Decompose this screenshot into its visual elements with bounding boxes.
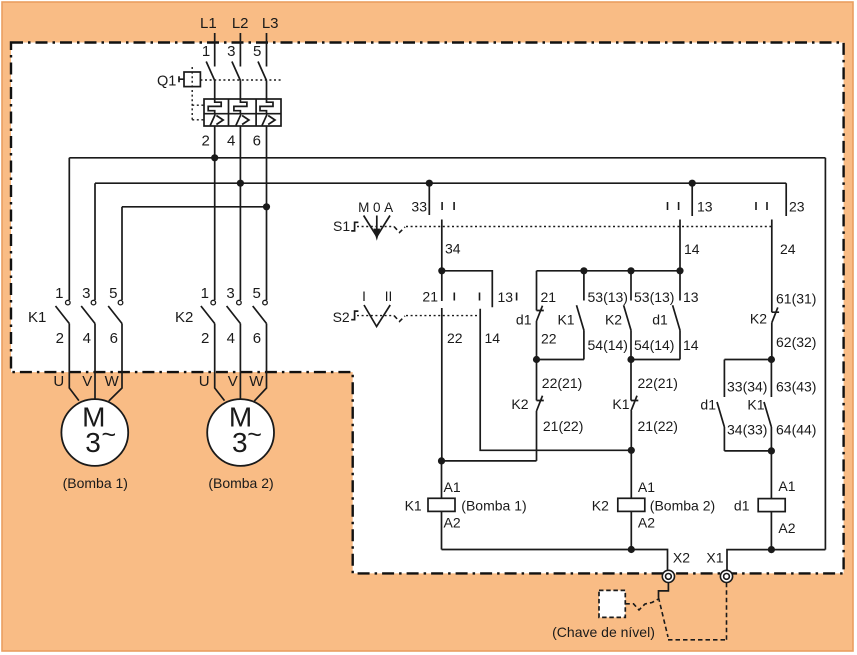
svg-text:34: 34: [445, 241, 461, 257]
svg-text:1: 1: [201, 285, 209, 302]
svg-text:K1: K1: [28, 309, 46, 326]
svg-text:22(21): 22(21): [638, 375, 678, 391]
svg-text:3: 3: [227, 43, 235, 60]
svg-text:A1: A1: [778, 478, 795, 494]
svg-text:I: I: [362, 289, 366, 304]
svg-text:A2: A2: [778, 520, 795, 536]
svg-text:14: 14: [684, 241, 700, 257]
svg-text:14: 14: [485, 330, 501, 346]
svg-text:(Bomba 1): (Bomba 1): [63, 475, 128, 491]
svg-text:M: M: [358, 200, 369, 215]
svg-text:4: 4: [83, 330, 91, 347]
svg-text:34(33): 34(33): [727, 422, 767, 438]
svg-text:V: V: [228, 373, 238, 390]
svg-text:A2: A2: [444, 515, 461, 531]
svg-text:6: 6: [253, 133, 261, 150]
svg-text:6: 6: [253, 330, 261, 347]
svg-text:L1: L1: [200, 15, 217, 32]
svg-text:K2: K2: [750, 311, 767, 327]
svg-text:62(32): 62(32): [776, 334, 816, 350]
svg-text:4: 4: [227, 133, 235, 150]
svg-text:13: 13: [683, 289, 699, 305]
svg-text:54(14): 54(14): [634, 337, 674, 353]
svg-text:54(14): 54(14): [588, 337, 628, 353]
svg-text:5: 5: [253, 43, 261, 60]
svg-text:X2: X2: [673, 550, 690, 566]
svg-text:II: II: [385, 289, 393, 304]
svg-text:3: 3: [232, 427, 248, 458]
svg-text:U: U: [53, 373, 64, 390]
svg-text:64(44): 64(44): [776, 422, 816, 438]
svg-text:5: 5: [252, 285, 260, 302]
svg-text:A1: A1: [638, 479, 655, 495]
svg-text:L2: L2: [232, 15, 249, 32]
svg-text:A: A: [384, 200, 393, 215]
svg-text:K1: K1: [612, 396, 629, 412]
svg-text:3: 3: [85, 427, 101, 458]
svg-text:A1: A1: [444, 479, 461, 495]
svg-text:21: 21: [541, 289, 557, 305]
svg-text:53(13): 53(13): [634, 289, 674, 305]
svg-text:U: U: [199, 373, 210, 390]
svg-text:d1: d1: [652, 312, 668, 328]
svg-text:1: 1: [202, 43, 210, 60]
svg-text:K1: K1: [747, 397, 764, 413]
svg-text:63(43): 63(43): [776, 379, 816, 395]
svg-text:(Chave de nível): (Chave de nível): [552, 624, 655, 640]
svg-text:2: 2: [201, 330, 209, 347]
svg-text:A2: A2: [638, 515, 655, 531]
svg-text:~: ~: [247, 421, 262, 449]
svg-text:K1: K1: [405, 498, 422, 514]
svg-text:21(22): 21(22): [638, 418, 678, 434]
svg-text:23: 23: [789, 199, 805, 215]
svg-text:22(21): 22(21): [542, 375, 582, 391]
svg-text:61(31): 61(31): [776, 291, 816, 307]
svg-text:4: 4: [227, 330, 235, 347]
svg-text:X1: X1: [706, 550, 723, 566]
svg-text:21: 21: [422, 289, 438, 305]
svg-text:V: V: [82, 373, 92, 390]
svg-text:2: 2: [201, 133, 209, 150]
svg-text:0: 0: [373, 200, 381, 215]
svg-text:d1: d1: [734, 498, 750, 514]
svg-text:W: W: [105, 373, 120, 390]
svg-text:5: 5: [109, 285, 117, 302]
svg-text:W: W: [249, 373, 264, 390]
svg-text:13: 13: [498, 289, 514, 305]
svg-text:22: 22: [447, 330, 463, 346]
svg-text:~: ~: [102, 421, 117, 449]
svg-text:3: 3: [226, 285, 234, 302]
svg-text:33(34): 33(34): [727, 379, 767, 395]
svg-text:14: 14: [683, 337, 699, 353]
svg-text:d1: d1: [516, 312, 532, 328]
svg-text:6: 6: [110, 330, 118, 347]
svg-text:d1: d1: [700, 397, 716, 413]
svg-text:3: 3: [82, 285, 90, 302]
svg-text:53(13): 53(13): [588, 289, 628, 305]
svg-text:L3: L3: [262, 15, 279, 32]
svg-text:K2: K2: [175, 309, 193, 326]
svg-text:33: 33: [411, 199, 427, 215]
svg-text:Q1: Q1: [157, 74, 176, 90]
svg-text:S2: S2: [333, 309, 350, 325]
svg-text:21(22): 21(22): [543, 418, 583, 434]
svg-text:(Bomba 2): (Bomba 2): [650, 498, 715, 514]
svg-text:K2: K2: [592, 498, 609, 514]
svg-text:K2: K2: [511, 396, 528, 412]
svg-text:(Bomba 2): (Bomba 2): [208, 475, 273, 491]
svg-text:S1: S1: [333, 218, 350, 234]
svg-text:2: 2: [56, 330, 64, 347]
svg-text:24: 24: [780, 241, 796, 257]
svg-text:13: 13: [697, 199, 713, 215]
svg-text:1: 1: [55, 285, 63, 302]
svg-text:(Bomba 1): (Bomba 1): [461, 498, 526, 514]
svg-text:K2: K2: [605, 312, 622, 328]
svg-text:K1: K1: [557, 312, 574, 328]
svg-text:22: 22: [541, 331, 557, 347]
